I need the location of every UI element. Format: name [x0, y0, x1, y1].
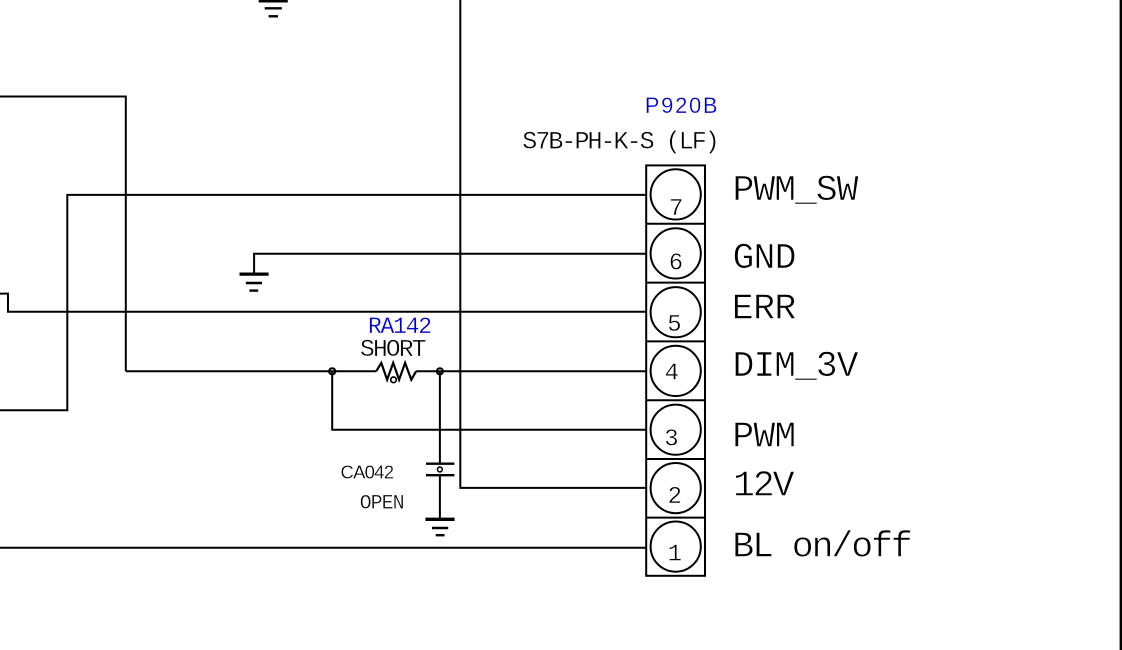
- capacitor CA042 open indicator circle: [438, 467, 443, 472]
- svg-text:P920B: P920B: [645, 93, 718, 118]
- pin 6: [651, 228, 701, 278]
- ground G1 (top, partially cut off): [259, 1, 288, 16]
- pin 5: [651, 287, 701, 339]
- pin 4: [651, 346, 701, 396]
- svg-text:12V: 12V: [733, 465, 795, 506]
- wire net BL on/off to pin 1: [0, 547, 646, 549]
- svg-text:4: 4: [665, 361, 679, 388]
- svg-text:S7B-PH-K-S (LF): S7B-PH-K-S (LF): [522, 128, 720, 157]
- svg-text:OPEN: OPEN: [360, 492, 405, 515]
- wire net DIM_3V (y=371) right part to pin 4: [416, 370, 646, 372]
- wire capacitor to ground G3: [439, 475, 441, 519]
- svg-text:6: 6: [669, 250, 683, 277]
- wire net DIM_3V (y=371) left part to resistor: [126, 370, 376, 372]
- resistor RA142 short indicator circle: [391, 377, 397, 383]
- wire net 12V vertical from top to pin 2: [460, 0, 646, 488]
- junction J1: [329, 368, 335, 374]
- svg-text:1: 1: [668, 542, 682, 569]
- svg-text:5: 5: [667, 312, 681, 339]
- svg-text:SHORT: SHORT: [360, 337, 427, 364]
- wire net PWM_SW left segment (y=96): [0, 97, 126, 372]
- resistor RA142 zigzag: [376, 363, 416, 380]
- pin 7: [651, 169, 701, 223]
- svg-text:GND: GND: [733, 238, 797, 279]
- ground G2: [240, 274, 269, 291]
- ground G3: [425, 519, 454, 535]
- wire net PWM from left junction down to pin 3: [332, 371, 646, 430]
- pin 1: [651, 522, 701, 572]
- pin 2: [651, 463, 701, 513]
- capacitor CA042 plates: [426, 464, 454, 476]
- svg-text:PWM: PWM: [732, 416, 796, 457]
- svg-text:CA042: CA042: [341, 462, 395, 483]
- wire net ERR to pin 5 (with step at left edge): [0, 294, 646, 312]
- svg-text:ERR: ERR: [732, 289, 797, 330]
- svg-text:BL on/off: BL on/off: [732, 527, 913, 568]
- svg-text:2: 2: [668, 484, 682, 511]
- junction J2: [437, 368, 443, 374]
- wire net PWM_SW to pin 7: [0, 195, 646, 410]
- wire from right junction down to capacitor CA042: [439, 371, 441, 463]
- svg-text:3: 3: [664, 426, 678, 453]
- svg-text:7: 7: [669, 196, 683, 223]
- pin 3: [651, 405, 701, 455]
- svg-text:PWM_SW: PWM_SW: [733, 170, 859, 211]
- border line right: [1120, 0, 1122, 650]
- wire net GND from pin 6 to ground G2: [254, 254, 646, 273]
- connector P920B outline: [646, 165, 705, 575]
- svg-text:DIM_3V: DIM_3V: [733, 346, 859, 387]
